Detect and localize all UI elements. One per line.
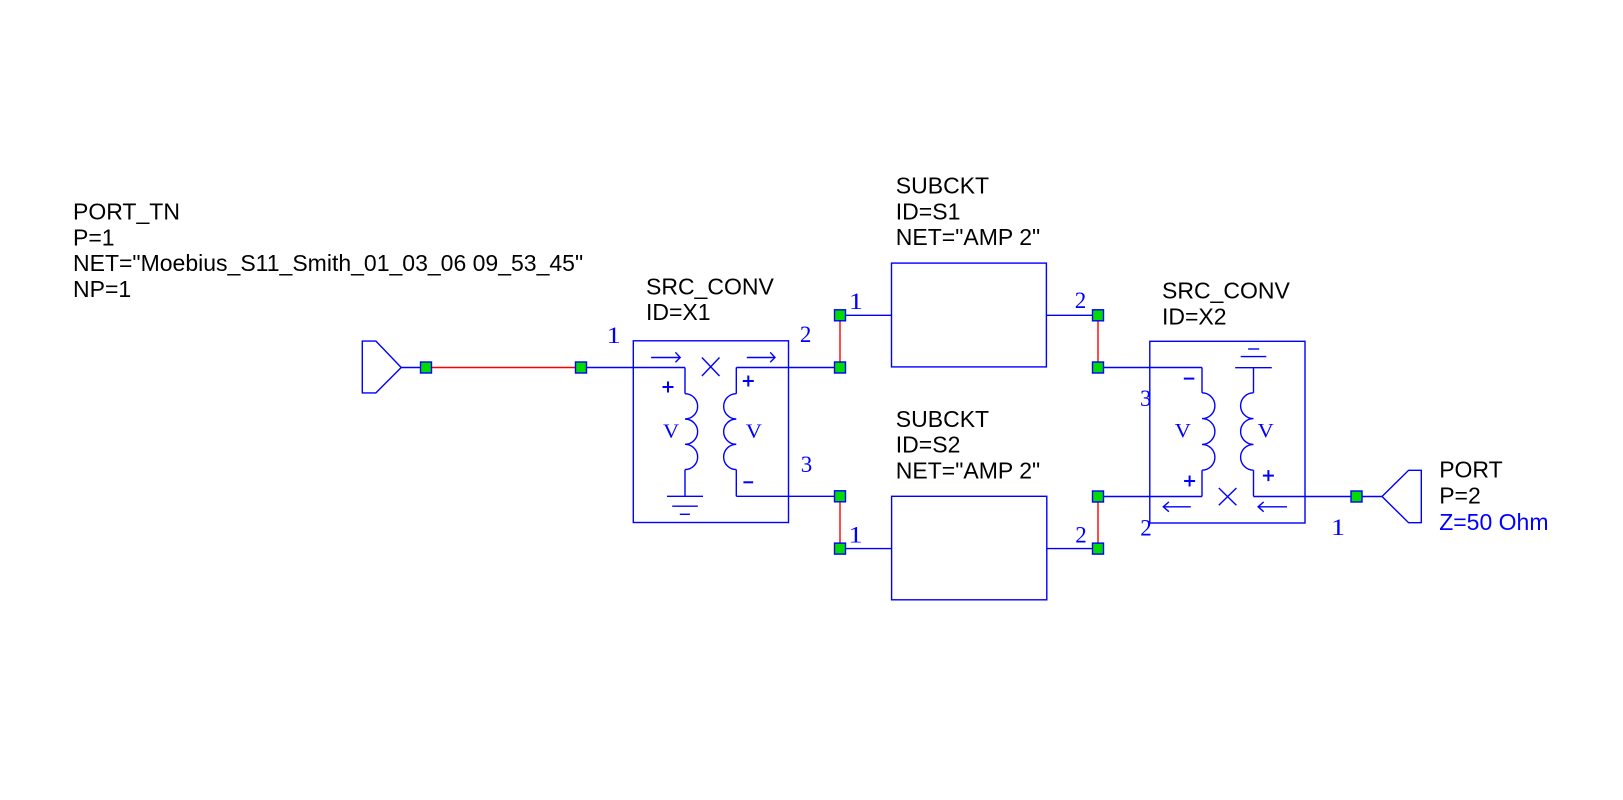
subcircuit SUBCKT S2 label bbox=[896, 406, 1040, 484]
wire (red) node G to node H bbox=[1097, 315, 1099, 367]
svg-text:ID=X2: ID=X2 bbox=[1162, 304, 1227, 330]
node A bbox=[421, 362, 432, 373]
wire (red) node A to node B bbox=[426, 367, 581, 369]
wire node B to X1 pin 1 bbox=[581, 367, 685, 369]
wire (red) node J to node I bbox=[1097, 497, 1099, 549]
svg-text:1: 1 bbox=[849, 288, 863, 314]
ground of X2 (rotated) bbox=[1235, 349, 1272, 368]
wire node F to S2 pin 1 bbox=[840, 548, 892, 550]
svg-text:NET="AMP 2": NET="AMP 2" bbox=[896, 457, 1040, 483]
svg-text:SUBCKT: SUBCKT bbox=[896, 406, 989, 432]
node I bbox=[1093, 491, 1104, 502]
svg-text:2: 2 bbox=[800, 322, 812, 347]
svg-text:P=1: P=1 bbox=[73, 224, 115, 250]
svg-text:PORT: PORT bbox=[1439, 457, 1502, 483]
node C bbox=[835, 310, 846, 321]
node E bbox=[835, 491, 846, 502]
svg-text:ID=X1: ID=X1 bbox=[646, 299, 711, 325]
svg-text:NET="AMP 2": NET="AMP 2" bbox=[896, 224, 1040, 250]
svg-text:NP=1: NP=1 bbox=[73, 276, 131, 302]
node J bbox=[1093, 543, 1104, 554]
wire node C to S1 pin 1 bbox=[840, 314, 892, 316]
svg-text:1: 1 bbox=[848, 522, 862, 548]
subcircuit SUBCKT S2 box bbox=[892, 496, 1047, 600]
svg-text:2: 2 bbox=[1075, 288, 1087, 313]
wire node I to X2 pin 2 bbox=[1098, 496, 1202, 498]
wire S2 pin 2 to node J bbox=[1047, 548, 1098, 550]
svg-text:3: 3 bbox=[801, 452, 813, 477]
subcircuit SUBCKT S1 label bbox=[896, 173, 1040, 251]
svg-text:1: 1 bbox=[1331, 514, 1345, 540]
node H bbox=[1093, 362, 1104, 373]
wire (red) node C to node D bbox=[839, 315, 841, 367]
svg-text:P=2: P=2 bbox=[1439, 483, 1481, 509]
transformer SRC_CONV X2 symbol bbox=[1150, 341, 1305, 523]
svg-text:ID=S2: ID=S2 bbox=[896, 432, 961, 458]
svg-text:V: V bbox=[1258, 419, 1275, 442]
svg-text:NET="Moebius_S11_Smith_01_03_0: NET="Moebius_S11_Smith_01_03_06 09_53_45… bbox=[73, 250, 583, 276]
node F bbox=[835, 543, 846, 554]
subcircuit SUBCKT S1 box bbox=[892, 263, 1047, 367]
svg-text:ID=S1: ID=S1 bbox=[896, 198, 961, 224]
node K bbox=[1351, 491, 1362, 502]
svg-text:SUBCKT: SUBCKT bbox=[896, 173, 989, 199]
wire (red) node E to node F bbox=[839, 496, 841, 548]
svg-text:SRC_CONV: SRC_CONV bbox=[646, 273, 774, 299]
transformer SRC_CONV X2 label bbox=[1162, 278, 1290, 330]
port P1 parameter text PORT_TN bbox=[73, 199, 583, 302]
svg-text:2: 2 bbox=[1140, 516, 1152, 541]
wire X1 pin 2 to node D bbox=[736, 367, 840, 369]
port P1 symbol bbox=[362, 341, 401, 393]
node D bbox=[835, 362, 846, 373]
port P2 symbol bbox=[1382, 470, 1421, 522]
node G bbox=[1093, 310, 1104, 321]
wire X2 pin 1 to node K bbox=[1254, 496, 1357, 498]
wire node H to X2 pin 3 bbox=[1098, 367, 1202, 369]
svg-text:Z=50 Ohm: Z=50 Ohm bbox=[1439, 509, 1548, 535]
port P2 parameter text bbox=[1439, 457, 1548, 535]
node B bbox=[576, 362, 587, 373]
wire port P1 to node A bbox=[401, 367, 426, 369]
ground of X1 bbox=[667, 496, 703, 514]
svg-text:SRC_CONV: SRC_CONV bbox=[1162, 278, 1290, 304]
svg-text:PORT_TN: PORT_TN bbox=[73, 199, 180, 225]
wire S1 pin 2 to node G bbox=[1046, 314, 1098, 316]
svg-text:V: V bbox=[746, 420, 763, 443]
svg-text:2: 2 bbox=[1075, 522, 1087, 547]
svg-text:V: V bbox=[663, 420, 680, 443]
svg-text:V: V bbox=[1175, 419, 1192, 442]
transformer SRC_CONV X1 label bbox=[646, 273, 774, 325]
svg-text:3: 3 bbox=[1140, 386, 1152, 411]
wire X1 pin 3 to node E bbox=[736, 495, 840, 497]
transformer SRC_CONV X1 symbol bbox=[633, 341, 788, 523]
svg-text:1: 1 bbox=[607, 322, 621, 348]
wire node K to port P2 bbox=[1357, 496, 1383, 498]
